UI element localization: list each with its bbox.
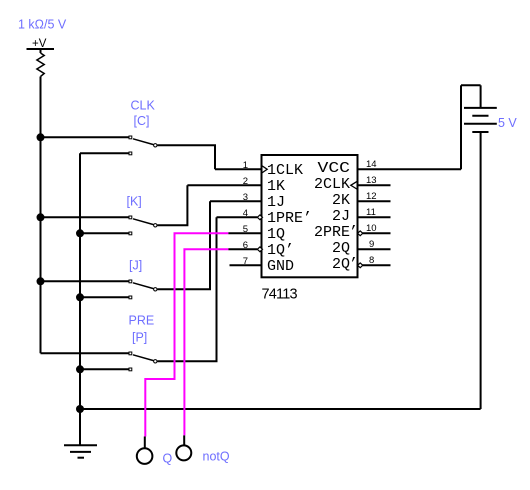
- pin 10 inverted diamond: [358, 231, 363, 236]
- pin 4 inverted diamond: [257, 215, 262, 220]
- svg-text:9: 9: [369, 239, 374, 250]
- svg-text:1 kΩ/5 V: 1 kΩ/5 V: [18, 18, 67, 32]
- wire J bottom throw line: [80, 296, 130, 298]
- pin 11 stub: [358, 216, 391, 218]
- svg-text:10: 10: [366, 223, 377, 234]
- terminal Q: [137, 437, 153, 464]
- pin 8 inverted diamond: [358, 263, 363, 268]
- pin 6 inverted diamond: [257, 247, 262, 252]
- pin 7 stub: [230, 264, 262, 266]
- svg-text:notQ: notQ: [203, 450, 230, 464]
- wire CLK bottom throw line: [80, 152, 130, 154]
- svg-text:GND: GND: [267, 258, 294, 275]
- svg-text:2Q: 2Q: [332, 256, 350, 273]
- node junction dot rail2 J: [76, 293, 84, 301]
- wire PRE bottom throw line: [80, 368, 130, 370]
- pin 1 clock arrow: [262, 166, 267, 173]
- wire ground rail bottom: [80, 408, 481, 410]
- wire PRE pivot to pin4: [157, 217, 216, 361]
- svg-text:3: 3: [243, 192, 248, 203]
- svg-text:CLK: CLK: [131, 99, 156, 113]
- svg-text:2K: 2K: [332, 192, 350, 209]
- svg-text:[C]: [C]: [134, 114, 150, 128]
- svg-text:74113: 74113: [262, 287, 298, 303]
- svg-text:VCC: VCC: [318, 160, 351, 177]
- terminal notQ: [176, 435, 191, 460]
- switch S1 CLK: [129, 136, 157, 155]
- switch S2 K: [129, 216, 157, 235]
- wire CLK pivot to pin1: [157, 145, 215, 169]
- pin 5 stub: [228, 232, 261, 234]
- pin 9 stub: [358, 248, 391, 250]
- svg-text:’: ’: [349, 256, 358, 273]
- ground symbol: [64, 445, 97, 457]
- svg-text:6: 6: [243, 240, 248, 251]
- pin 6 stub: [228, 248, 257, 250]
- svg-text:2PRE: 2PRE: [314, 224, 350, 241]
- svg-text:7: 7: [243, 256, 248, 267]
- resistor R1: [37, 53, 44, 77]
- wire notQ output magenta from pin6: [184, 249, 228, 435]
- switch S4 PRE: [129, 352, 157, 371]
- svg-text:Q: Q: [163, 452, 173, 466]
- battery B1 5V: [461, 85, 497, 409]
- svg-text:11: 11: [366, 207, 376, 218]
- node junction dot rail2 PRE: [76, 365, 84, 373]
- svg-text:8: 8: [369, 255, 374, 266]
- svg-text:1Q: 1Q: [267, 226, 285, 243]
- wire CLK top contact line: [41, 136, 131, 138]
- svg-text:14: 14: [366, 159, 377, 170]
- wire J top contact line: [41, 280, 131, 282]
- svg-text:1Q’: 1Q’: [267, 242, 294, 259]
- pin 13 stub: [358, 184, 391, 186]
- node junction dot rail2 K: [76, 229, 84, 237]
- svg-text:’: ’: [349, 224, 358, 241]
- svg-text:1: 1: [243, 160, 248, 171]
- pin 10 stub: [363, 232, 391, 234]
- wire K top contact line: [41, 216, 131, 218]
- node junction dot rail1 J: [37, 277, 45, 285]
- pin 13 clock arrow: [351, 182, 357, 189]
- wire corner rail1 to PRE switch: [41, 352, 131, 354]
- svg-text:1CLK: 1CLK: [267, 162, 303, 179]
- pin 3 stub: [210, 200, 262, 202]
- svg-text:1PRE’: 1PRE’: [267, 210, 312, 227]
- wire J pivot to pin3: [157, 201, 210, 289]
- svg-text:PRE: PRE: [129, 314, 155, 328]
- svg-text:12: 12: [366, 191, 377, 202]
- svg-text:1K: 1K: [267, 178, 285, 195]
- svg-text:2: 2: [243, 176, 248, 187]
- svg-text:5 V: 5 V: [498, 116, 517, 130]
- node junction dot ground rail: [76, 405, 84, 413]
- pin 2 stub: [187, 184, 261, 186]
- node junction dot rail1 K: [37, 213, 45, 221]
- wire rail 2 (ground rail vertical): [79, 153, 81, 445]
- wire Q output magenta from pin5: [145, 233, 228, 436]
- power +V supply symbol: [27, 49, 55, 53]
- IC U1 74113 box: [262, 155, 358, 277]
- svg-text:1J: 1J: [267, 194, 285, 211]
- pin 12 stub: [358, 200, 391, 202]
- svg-text:[K]: [K]: [127, 195, 142, 209]
- switch S3 J: [129, 280, 157, 299]
- svg-text:2Q: 2Q: [332, 240, 350, 257]
- svg-text:4: 4: [243, 208, 248, 219]
- pin 4 stub: [217, 216, 258, 218]
- pin 14 stub and wire to battery: [358, 168, 462, 170]
- wire K bottom throw line: [80, 232, 130, 234]
- pin 8 stub: [363, 264, 391, 266]
- wire rail 1 from resistor to PRE contact: [40, 77, 42, 354]
- svg-text:2J: 2J: [332, 208, 350, 225]
- svg-text:13: 13: [366, 175, 377, 186]
- svg-text:+V: +V: [32, 38, 47, 50]
- svg-text:[J]: [J]: [129, 259, 142, 273]
- pin 1 stub: [215, 168, 262, 170]
- svg-text:2CLK: 2CLK: [314, 176, 350, 193]
- wire K pivot to pin2: [157, 185, 187, 225]
- svg-text:5: 5: [243, 224, 248, 235]
- svg-text:[P]: [P]: [132, 331, 147, 345]
- node junction dot rail1 CLK: [37, 133, 45, 141]
